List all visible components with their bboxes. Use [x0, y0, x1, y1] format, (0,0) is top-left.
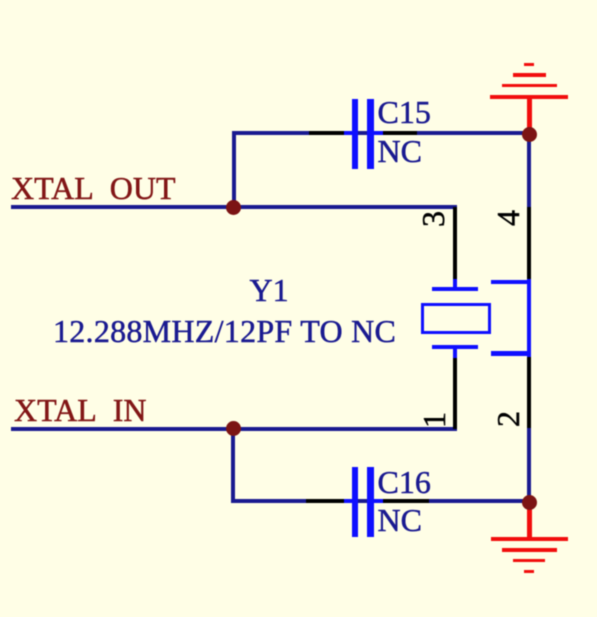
crystal Y1 pin 3 (black vertical pin): [453, 207, 457, 281]
junction: XTAL_IN node: [226, 421, 241, 436]
net label XTAL_OUT: [11, 172, 176, 204]
net label XTAL_IN: [14, 394, 147, 426]
pin number 3: [417, 211, 449, 227]
pin number 4: [492, 210, 524, 226]
wire: top C15 row horizontal from left vertical to top-right junction: [232, 131, 531, 135]
wire: right vertical lower segment (pin 2 down to bottom junction): [527, 427, 531, 503]
crystal Y1 pin 1 (black vertical pin): [453, 357, 457, 429]
label C15 (designator): [378, 96, 431, 128]
wire: right vertical upper segment (top junction down to pin 4): [527, 131, 531, 207]
crystal Y1 pin 4 (black vertical pin): [527, 207, 531, 280]
crystal Y1 body (electrodes and resonator plate): [453, 279, 457, 289]
pin number 2: [492, 411, 524, 427]
value 12.288MHZ/12PF TO NC: [53, 315, 396, 347]
capacitor C15: [309, 131, 353, 135]
value NC (C16): [378, 504, 422, 536]
label Y1 (designator): [250, 274, 289, 306]
label C16 (designator): [378, 466, 431, 498]
junction: top-right node (C15 / ground / pin 4): [522, 127, 537, 142]
wire: top-left vertical from C15 row down to XTAL_OUT node: [232, 131, 236, 209]
junction: bottom-right node (C16 / ground / pin 2): [522, 495, 537, 510]
junction: XTAL_OUT node: [226, 200, 241, 215]
wire: bottom-left vertical from XTAL_IN node down to C16 row: [231, 429, 235, 504]
crystal Y1 pin 2 (black vertical pin): [527, 357, 531, 428]
value NC (C15): [378, 135, 422, 167]
ground (bottom power ground symbol): [527, 503, 532, 537]
pin number 1: [418, 412, 450, 428]
capacitor C16: [306, 499, 352, 503]
crystal Y1 case bracket (pins 2/4 side): [527, 279, 532, 358]
wire: XTAL_IN horizontal net wire: [11, 427, 457, 431]
wire: bottom C16 row horizontal to bottom-right junction: [231, 499, 531, 503]
ground (top power ground symbol): [527, 97, 532, 130]
wire: XTAL_OUT horizontal net wire: [11, 205, 457, 209]
